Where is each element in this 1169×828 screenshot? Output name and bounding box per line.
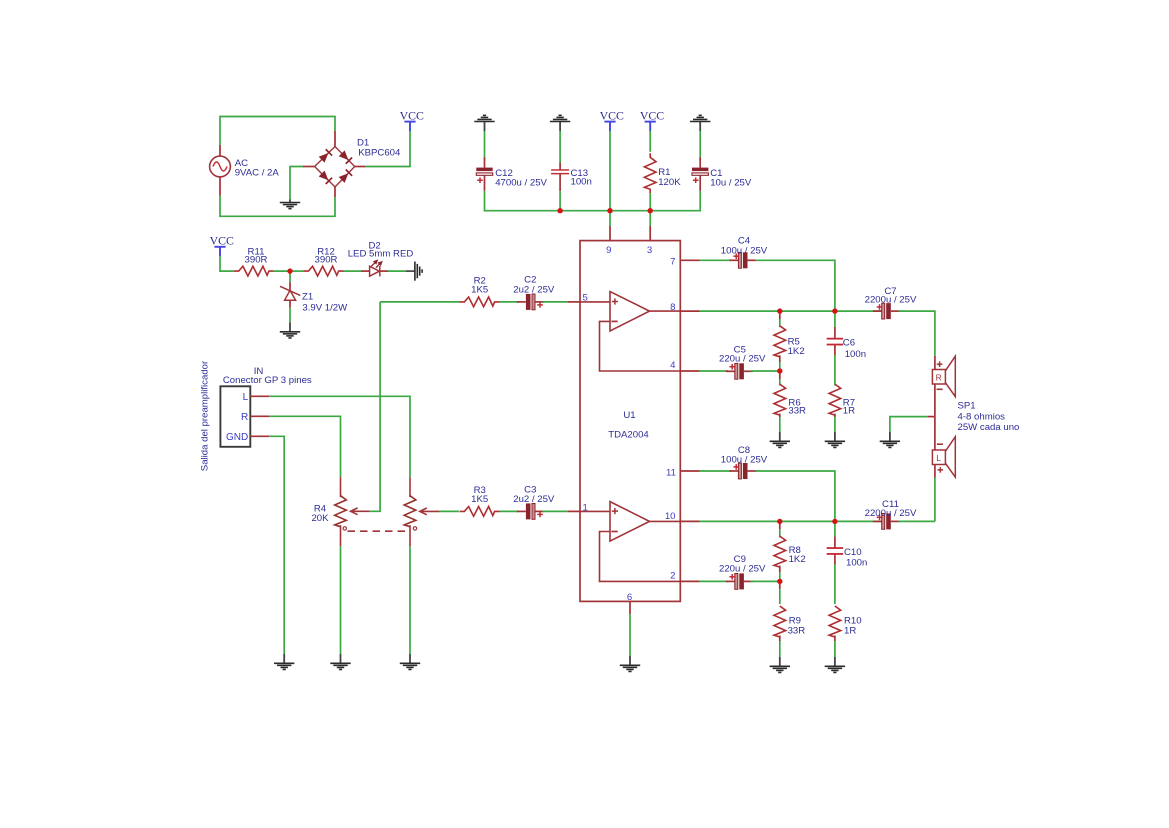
svg-text:1: 1 — [583, 503, 588, 514]
svg-text:GND: GND — [226, 432, 248, 443]
svg-text:1K2: 1K2 — [789, 554, 806, 565]
svg-text:33R: 33R — [788, 406, 806, 417]
svg-text:100u / 25V: 100u / 25V — [721, 454, 768, 465]
svg-text:1K2: 1K2 — [788, 346, 805, 357]
svg-text:4700u / 25V: 4700u / 25V — [495, 177, 547, 188]
svg-text:1K5: 1K5 — [471, 285, 488, 296]
svg-text:KBPC604: KBPC604 — [358, 147, 401, 158]
svg-text:4: 4 — [670, 360, 676, 371]
svg-text:390R: 390R — [245, 255, 268, 266]
svg-text:2200u / 25V: 2200u / 25V — [865, 295, 917, 306]
svg-text:8: 8 — [670, 302, 675, 313]
svg-text:33R: 33R — [788, 626, 806, 637]
svg-text:3: 3 — [647, 245, 652, 256]
svg-text:L: L — [243, 392, 249, 403]
svg-text:VCC: VCC — [210, 234, 234, 248]
svg-text:11: 11 — [666, 467, 676, 478]
svg-text:R: R — [241, 412, 248, 423]
svg-text:4-8 ohmios: 4-8 ohmios — [958, 411, 1006, 422]
svg-text:20K: 20K — [311, 513, 329, 524]
svg-text:9: 9 — [606, 245, 611, 256]
svg-text:100n: 100n — [845, 349, 866, 360]
svg-text:1R: 1R — [844, 626, 856, 637]
svg-text:R: R — [936, 372, 942, 382]
svg-text:LED 5mm RED: LED 5mm RED — [348, 249, 414, 260]
svg-text:100u / 25V: 100u / 25V — [721, 245, 768, 256]
svg-text:5: 5 — [583, 293, 588, 304]
svg-text:25W cada uno: 25W cada uno — [958, 422, 1020, 433]
svg-text:2u2 / 25V: 2u2 / 25V — [513, 285, 555, 296]
svg-text:Conector GP 3 pines: Conector GP 3 pines — [223, 375, 312, 386]
svg-text:100n: 100n — [846, 558, 867, 569]
svg-text:2u2 / 25V: 2u2 / 25V — [513, 494, 555, 505]
svg-text:9VAC / 2A: 9VAC / 2A — [235, 168, 280, 179]
svg-text:L: L — [936, 453, 941, 463]
svg-text:C6: C6 — [843, 337, 855, 348]
svg-text:VCC: VCC — [600, 108, 624, 122]
svg-text:220u / 25V: 220u / 25V — [719, 563, 766, 574]
svg-text:2: 2 — [670, 570, 675, 581]
svg-text:2200u / 25V: 2200u / 25V — [865, 508, 917, 519]
svg-text:120K: 120K — [658, 177, 681, 188]
svg-text:3.9V 1/2W: 3.9V 1/2W — [302, 302, 348, 313]
svg-text:U1: U1 — [623, 410, 635, 421]
svg-text:TDA2004: TDA2004 — [608, 429, 649, 440]
svg-text:C10: C10 — [844, 547, 862, 558]
svg-text:VCC: VCC — [640, 108, 664, 122]
svg-text:Salida del preamplificador: Salida del preamplificador — [200, 360, 211, 471]
svg-text:100n: 100n — [571, 177, 592, 188]
svg-text:1R: 1R — [843, 406, 855, 417]
svg-text:220u / 25V: 220u / 25V — [719, 354, 766, 365]
svg-text:VCC: VCC — [400, 108, 424, 122]
svg-text:1K5: 1K5 — [471, 494, 488, 505]
svg-text:6: 6 — [627, 592, 632, 603]
svg-text:10: 10 — [665, 511, 676, 522]
svg-text:390R: 390R — [315, 255, 338, 266]
svg-text:Z1: Z1 — [302, 292, 313, 303]
svg-text:SP1: SP1 — [958, 401, 976, 412]
svg-text:7: 7 — [670, 256, 675, 267]
svg-text:10u / 25V: 10u / 25V — [710, 177, 752, 188]
